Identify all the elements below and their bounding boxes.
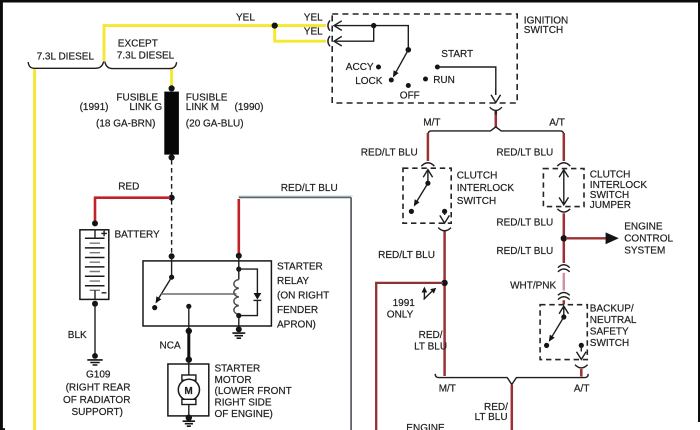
svg-text:LT BLU: LT BLU bbox=[475, 412, 508, 423]
svg-text:(18 GA-BRN): (18 GA-BRN) bbox=[96, 118, 155, 129]
starter motor ground dot bbox=[186, 415, 192, 421]
relay diode branch bbox=[239, 269, 258, 316]
inline connector arcs 2 bbox=[558, 292, 570, 299]
starter relay box bbox=[143, 261, 271, 326]
svg-text:OFF: OFF bbox=[400, 90, 420, 101]
arrow 1991 diagonal bbox=[424, 291, 432, 299]
svg-text:ONLY: ONLY bbox=[387, 310, 414, 321]
svg-text:BLK: BLK bbox=[68, 330, 87, 341]
svg-text:ENGINE: ENGINE bbox=[406, 423, 445, 430]
svg-text:STARTER: STARTER bbox=[277, 262, 323, 273]
ignition internal wiring bbox=[335, 26, 409, 48]
wire RED/LT BLU A/T branch upper bbox=[563, 133, 566, 161]
battery minus sign bbox=[102, 292, 107, 294]
jumper double arrow bbox=[559, 170, 568, 205]
svg-text:EXCEPT: EXCEPT bbox=[118, 38, 158, 49]
svg-text:RED/LT BLU: RED/LT BLU bbox=[496, 148, 553, 159]
svg-text:SWITCH: SWITCH bbox=[524, 25, 563, 36]
connector cup below clutch switch bbox=[438, 228, 451, 231]
brace 7.3L diesel option bbox=[28, 62, 103, 69]
svg-text:RED/LT BLU: RED/LT BLU bbox=[496, 218, 553, 229]
clutch switch lever arrowhead bbox=[414, 199, 420, 206]
connector dome above clutch switch bbox=[421, 163, 434, 166]
diode triangle bbox=[254, 293, 262, 300]
relay pivot dot bbox=[169, 275, 174, 280]
wire 1991 only bbox=[376, 282, 443, 430]
diode bar bbox=[254, 299, 262, 301]
wire WHT/PNK bbox=[563, 273, 566, 291]
svg-text:SUPPORT): SUPPORT) bbox=[72, 407, 124, 418]
battery top dot bbox=[92, 220, 98, 226]
svg-text:RED: RED bbox=[118, 182, 139, 193]
arrow 1991 up bbox=[423, 291, 425, 299]
starter motor ground wire bbox=[188, 405, 190, 418]
relay coil feed bbox=[238, 255, 240, 280]
svg-text:(1991): (1991) bbox=[80, 102, 109, 113]
svg-text:SWITCH: SWITCH bbox=[590, 338, 629, 349]
connector female YEL 2 bbox=[328, 36, 330, 46]
svg-text:RIGHT SIDE: RIGHT SIDE bbox=[215, 398, 272, 409]
relay input dot top bbox=[169, 253, 175, 259]
relay coil bottom dot bbox=[236, 313, 241, 318]
backup switch output arrow down bbox=[577, 346, 587, 359]
svg-text:RED/LT BLU: RED/LT BLU bbox=[378, 250, 435, 261]
contact dot START bbox=[435, 65, 440, 70]
contact dot OFF bbox=[406, 83, 411, 88]
battery top stub bbox=[94, 230, 96, 239]
svg-text:(ON RIGHT: (ON RIGHT bbox=[277, 291, 329, 302]
wire RED/LT BLU M/T branch upper bbox=[427, 133, 430, 161]
junction dot engine control bbox=[561, 235, 567, 241]
wire RED/LT BLU M/T branch lower bbox=[443, 232, 446, 377]
svg-text:LT BLU: LT BLU bbox=[414, 342, 447, 353]
clutch interlock switch dashed box bbox=[403, 168, 451, 223]
junction yellow bus bbox=[272, 23, 278, 29]
svg-text:RED/LT BLU: RED/LT BLU bbox=[496, 246, 553, 257]
starter motor brush top bbox=[182, 375, 196, 380]
wire RED relay feed vertical bbox=[238, 199, 241, 254]
inline connector arcs 1 bbox=[558, 265, 570, 272]
svg-text:CONTROL: CONTROL bbox=[624, 233, 673, 244]
backup switch lever bbox=[552, 317, 564, 336]
wire RED/LT BLU ignition output stub bbox=[495, 112, 498, 129]
svg-text:7.3L DIESEL: 7.3L DIESEL bbox=[117, 51, 175, 62]
svg-text:(20 GA-BLU): (20 GA-BLU) bbox=[186, 118, 244, 129]
svg-text:RED/LT BLU: RED/LT BLU bbox=[281, 183, 338, 194]
svg-text:RED/: RED/ bbox=[419, 330, 443, 341]
relay coil top dot bbox=[236, 267, 241, 272]
wire BLK battery to ground bbox=[94, 306, 96, 354]
junction dot 1991 wire bbox=[441, 280, 447, 286]
relay output wire bbox=[188, 306, 190, 329]
connector dome above jumper bbox=[557, 163, 570, 166]
wire yellow bus YEL bbox=[35, 26, 326, 430]
backup switch contact dot lower left bbox=[544, 343, 549, 348]
backup switch lever arrowhead bbox=[549, 335, 555, 342]
battery plates bbox=[85, 238, 105, 285]
ignition output arrow down bbox=[491, 88, 501, 103]
relay contact dot lower left bbox=[152, 305, 157, 310]
brace except 7.3L diesel option bbox=[105, 62, 177, 69]
wire NCA thick bbox=[187, 331, 190, 360]
svg-text:ACCY: ACCY bbox=[346, 62, 374, 73]
wire combined output bbox=[511, 385, 514, 430]
junction dot red to dashed wire bbox=[169, 195, 175, 201]
svg-text:OF RADIATOR: OF RADIATOR bbox=[63, 395, 130, 406]
NCA wire upper dot bbox=[186, 328, 192, 334]
svg-text:RED/LT BLU: RED/LT BLU bbox=[361, 148, 418, 159]
clutch switch contact dot right bbox=[442, 209, 447, 214]
fusible link bottom dot bbox=[169, 154, 175, 160]
svg-text:INTERLOCK: INTERLOCK bbox=[457, 183, 515, 194]
wire RED/LT BLU below jumper bbox=[563, 213, 566, 263]
svg-text:M: M bbox=[184, 386, 192, 397]
starter motor circle M bbox=[178, 379, 199, 400]
contact dot RUN bbox=[423, 77, 428, 82]
relay coil bbox=[234, 280, 239, 315]
clutch switch pivot dot bbox=[425, 181, 430, 186]
ignition lever to LOCK bbox=[396, 50, 408, 72]
connector cup below ignition switch bbox=[490, 107, 502, 110]
starter motor feed wire bbox=[188, 360, 190, 375]
backup switch pivot dot bbox=[561, 314, 566, 319]
backup switch contact dot right bbox=[579, 343, 584, 348]
svg-text:CLUTCH: CLUTCH bbox=[457, 170, 498, 181]
svg-text:LINK M: LINK M bbox=[186, 102, 219, 113]
ignition switch dashed box bbox=[332, 14, 517, 103]
connector female YEL 1 bbox=[328, 20, 330, 30]
clutch switch output arrow down bbox=[440, 212, 450, 223]
battery plus sign bbox=[101, 231, 107, 237]
svg-text:(RIGHT REAR: (RIGHT REAR bbox=[66, 383, 131, 394]
relay input wire into box bbox=[171, 256, 173, 277]
battery box bbox=[80, 230, 109, 300]
relay ground bbox=[236, 326, 242, 332]
svg-text:OF ENGINE): OF ENGINE) bbox=[215, 409, 273, 420]
ignition pin arrow 1 bbox=[334, 21, 342, 31]
svg-text:JUMPER: JUMPER bbox=[590, 200, 631, 211]
frame top border bbox=[0, 0, 700, 3]
svg-text:(1990): (1990) bbox=[235, 102, 264, 113]
svg-text:FENDER: FENDER bbox=[277, 305, 318, 316]
splitter M/T A/T bbox=[428, 127, 564, 135]
svg-text:LINK G: LINK G bbox=[129, 102, 162, 113]
svg-text:YEL: YEL bbox=[304, 26, 323, 37]
ignition pivot dot bbox=[406, 47, 412, 53]
NCA wire lower dot bbox=[186, 356, 192, 362]
relay internal link lever to coil bbox=[161, 293, 237, 295]
ground G109 bbox=[92, 353, 98, 359]
svg-text:RUN: RUN bbox=[433, 75, 455, 86]
starter motor ground bars bbox=[183, 421, 195, 426]
wire RED/LT BLU grey cyan tracer bbox=[238, 195, 353, 197]
svg-text:M/T: M/T bbox=[439, 384, 456, 395]
frame bottom-left stub bbox=[0, 428, 5, 430]
relay lever arrowhead bbox=[156, 296, 162, 303]
svg-text:A/T: A/T bbox=[549, 117, 565, 128]
relay output contact dot bbox=[186, 304, 191, 309]
combiner M/T A/T bottom bbox=[435, 374, 588, 385]
relay lever bbox=[159, 277, 172, 298]
contact dot ACCY bbox=[376, 65, 381, 70]
svg-text:MOTOR: MOTOR bbox=[215, 375, 252, 386]
ignition junction dot bbox=[371, 23, 376, 28]
svg-text:YEL: YEL bbox=[236, 12, 255, 23]
fusible link top dot bbox=[169, 85, 175, 91]
wire stub below backup switch bbox=[580, 369, 583, 377]
clutch switch contact dot lower left bbox=[409, 209, 414, 214]
svg-text:APRON): APRON) bbox=[277, 320, 316, 331]
svg-text:M/T: M/T bbox=[423, 117, 440, 128]
wire to engine control system bbox=[566, 237, 606, 239]
wire dashed fusible link to relay bbox=[171, 160, 173, 254]
connector cup below backup switch bbox=[575, 365, 588, 368]
contact dot LOCK bbox=[389, 78, 394, 83]
svg-text:SAFETY: SAFETY bbox=[590, 327, 629, 338]
fusible link G/M black bar bbox=[164, 92, 179, 155]
wire RED battery feed bbox=[94, 198, 170, 223]
svg-text:SWITCH: SWITCH bbox=[457, 196, 496, 207]
svg-text:G109: G109 bbox=[86, 369, 111, 380]
svg-text:SYSTEM: SYSTEM bbox=[624, 245, 665, 256]
battery bottom dot bbox=[92, 301, 98, 307]
starter motor box bbox=[168, 364, 209, 416]
wire START to output bbox=[437, 67, 495, 95]
svg-text:ENGINE: ENGINE bbox=[624, 221, 663, 232]
svg-text:BACKUP/: BACKUP/ bbox=[590, 304, 634, 315]
svg-text:START: START bbox=[441, 49, 473, 60]
connector cup below jumper bbox=[557, 209, 570, 212]
clutch interlock switch jumper dashed box bbox=[543, 169, 584, 207]
backup neutral safety switch dashed box bbox=[540, 305, 587, 360]
backup switch input arrow up bbox=[559, 306, 568, 317]
frame right border bbox=[698, 0, 700, 422]
battery bottom stub bbox=[94, 290, 96, 299]
junction dot red wire to relay coil bbox=[236, 253, 242, 259]
svg-text:YEL: YEL bbox=[304, 12, 323, 23]
starter motor brush bottom bbox=[182, 399, 196, 404]
svg-text:RELAY: RELAY bbox=[277, 276, 309, 287]
svg-text:A/T: A/T bbox=[574, 384, 590, 395]
ignition pin arrow 2 bbox=[334, 36, 342, 46]
clutch switch lever bbox=[417, 183, 428, 201]
svg-text:NCA: NCA bbox=[160, 341, 181, 352]
svg-text:7.3L DIESEL: 7.3L DIESEL bbox=[37, 51, 95, 62]
wire stub into backup switch bbox=[563, 300, 566, 304]
svg-text:LOCK: LOCK bbox=[355, 76, 383, 87]
relay ground wire bbox=[238, 316, 240, 329]
svg-text:STARTER: STARTER bbox=[215, 363, 261, 374]
svg-text:(LOWER FRONT: (LOWER FRONT bbox=[215, 386, 292, 397]
svg-text:NEUTRAL: NEUTRAL bbox=[590, 315, 637, 326]
ignition lever arrowhead bbox=[393, 70, 399, 77]
wire RED/LT BLU grey run bbox=[239, 197, 351, 430]
svg-text:BATTERY: BATTERY bbox=[115, 230, 161, 241]
svg-text:WHT/PNK: WHT/PNK bbox=[510, 281, 556, 292]
arrow engine control system bbox=[606, 232, 619, 244]
frame left border bbox=[0, 0, 3, 430]
clutch switch input arrow up bbox=[423, 170, 432, 183]
svg-text:1991: 1991 bbox=[393, 298, 416, 309]
